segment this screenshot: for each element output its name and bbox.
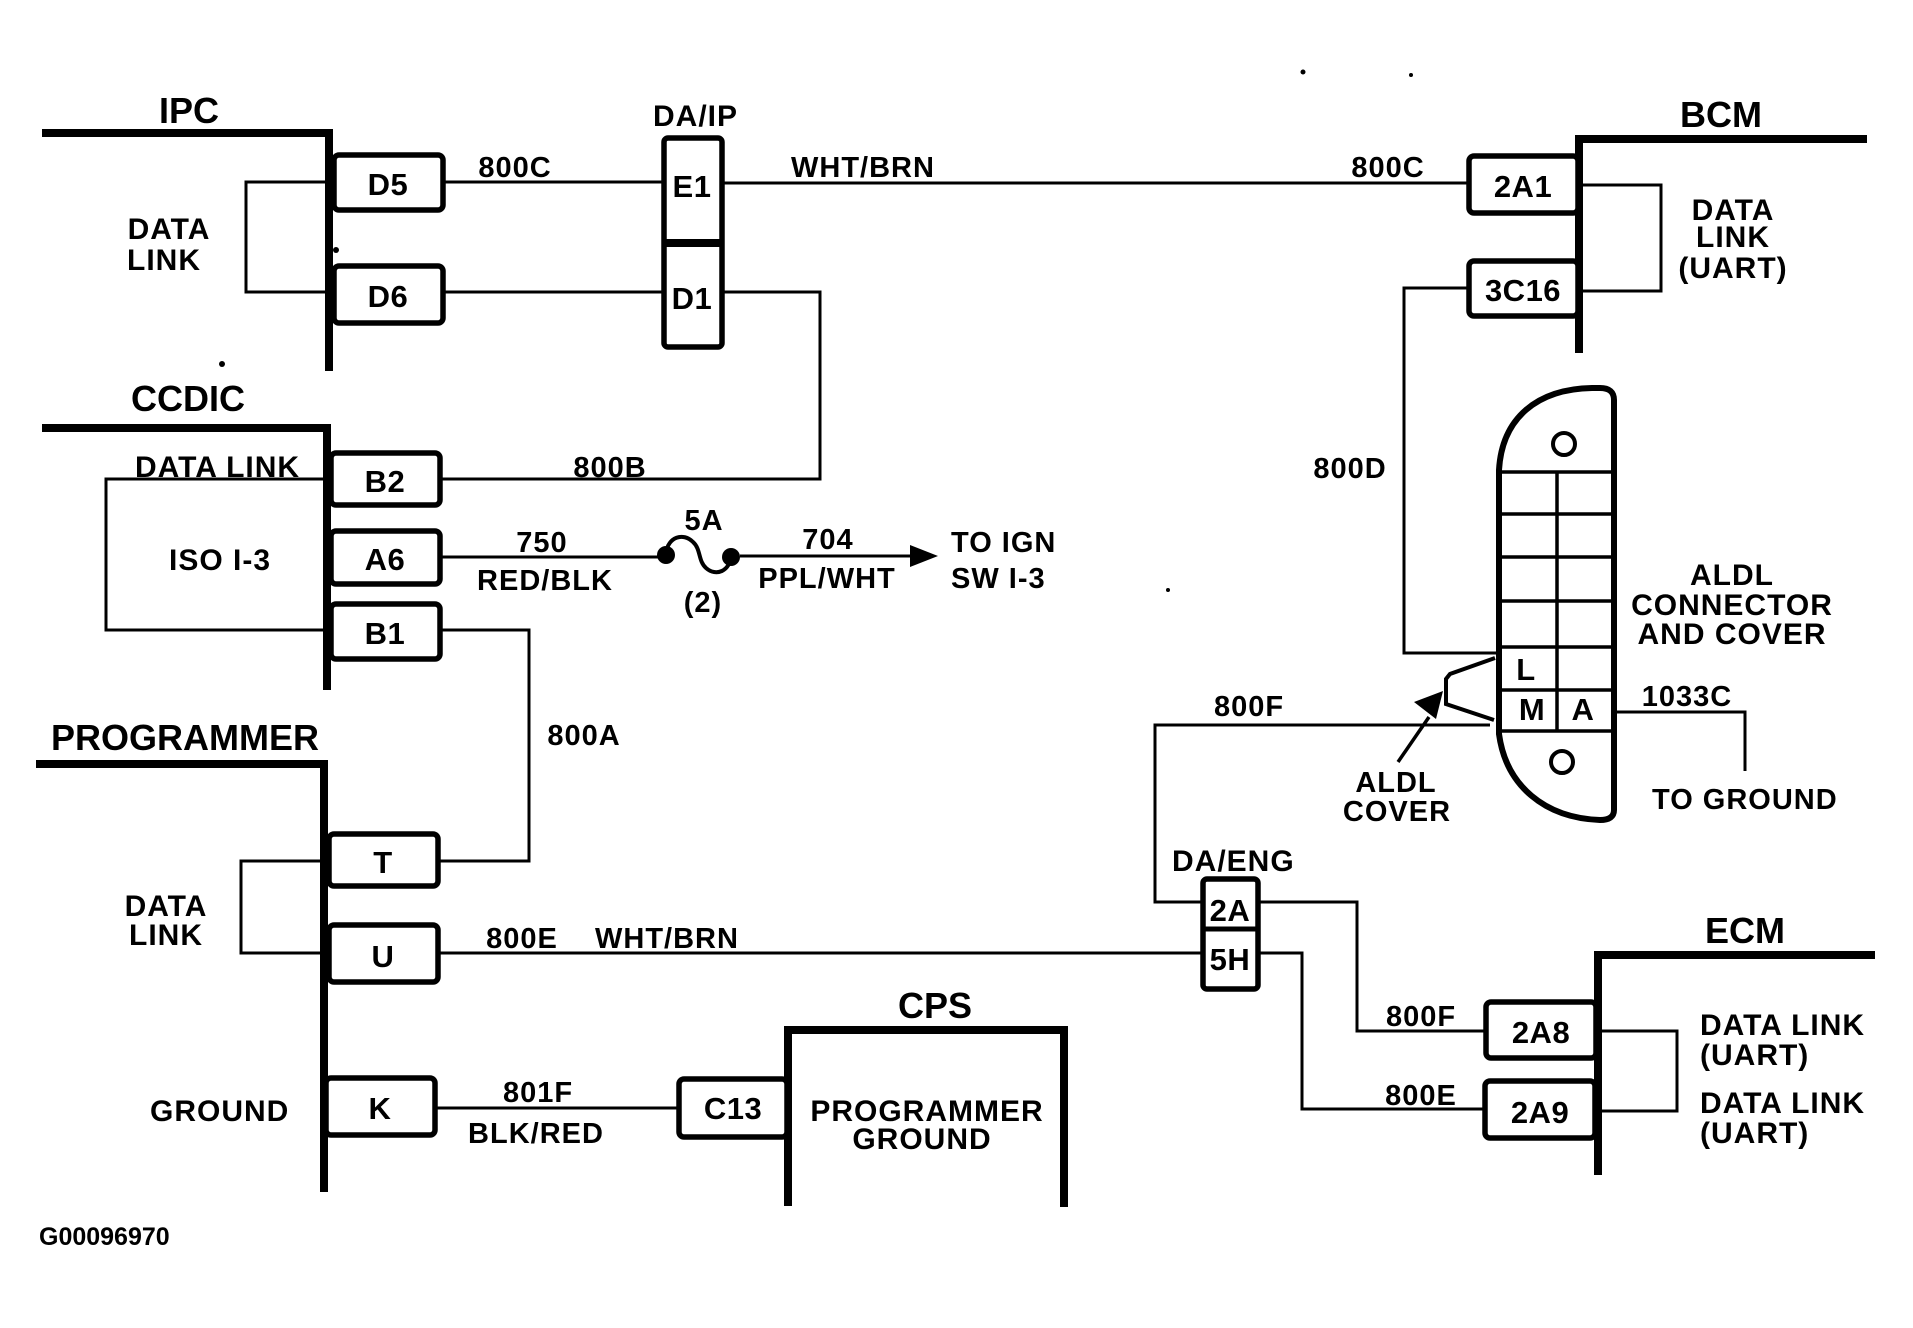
ALDL cover pointer arrow [1398, 691, 1443, 762]
svg-text:L: L [1516, 652, 1535, 687]
svg-text:K: K [369, 1091, 392, 1126]
CCDIC DATA LINK label [135, 451, 300, 484]
label 800A [547, 720, 620, 752]
connector DA/ENG label [1172, 845, 1295, 878]
label 750 [516, 527, 567, 559]
IPC data link internal bracket [246, 182, 329, 292]
ALDL CONNECTOR AND COVER label [1631, 559, 1833, 651]
svg-text:800A: 800A [547, 720, 620, 752]
wire 800D 3C16 to ALDL [1404, 288, 1496, 653]
scan speckles [1301, 70, 1306, 75]
module BCM outline bar [1579, 139, 1867, 353]
connector DA/IP body (pins E1/D1) [664, 138, 722, 347]
svg-text:BLK/RED: BLK/RED [468, 1118, 604, 1150]
svg-text:LINK: LINK [1696, 221, 1770, 254]
CCDIC internal bracket ISO [106, 479, 331, 630]
svg-text:5A: 5A [684, 505, 723, 537]
svg-text:DA/IP: DA/IP [653, 100, 738, 133]
label 800E lower [1385, 1080, 1457, 1112]
pin 2A8 [1486, 1002, 1596, 1058]
wire WHT/BRN E1 to 2A1 [722, 182, 1469, 185]
svg-text:LINK: LINK [129, 919, 203, 952]
svg-text:(2): (2) [684, 587, 722, 619]
svg-text:WHT/BRN: WHT/BRN [595, 923, 739, 955]
svg-text:800E: 800E [1385, 1080, 1457, 1112]
svg-text:PPL/WHT: PPL/WHT [758, 563, 896, 595]
module CPS outline [788, 1030, 1064, 1207]
connector DA/IP label [653, 100, 738, 133]
svg-text:M: M [1519, 692, 1545, 727]
wire 800E WHT/BRN U to 5H [438, 952, 1203, 955]
svg-text:A6: A6 [365, 542, 406, 577]
pin T [329, 834, 438, 886]
svg-text:DATA LINK: DATA LINK [1700, 1009, 1865, 1042]
svg-text:RED/BLK: RED/BLK [477, 565, 613, 597]
ECM DATA LINK (UART) label lower [1700, 1087, 1865, 1150]
svg-text:750: 750 [516, 527, 567, 559]
svg-text:5H: 5H [1210, 942, 1251, 977]
label WHT/BRN [791, 152, 935, 184]
svg-text:ALDL: ALDL [1355, 767, 1436, 799]
wire 704 PPL/WHT fuse to arrow [740, 555, 915, 558]
svg-text:GROUND: GROUND [852, 1123, 991, 1156]
module BCM label [1680, 94, 1762, 135]
svg-text:BCM: BCM [1680, 94, 1762, 135]
IPC DATA LINK label [127, 213, 210, 277]
wire 800A B1 to T [438, 630, 529, 861]
wire 800B D1 to B2 [440, 292, 820, 479]
svg-text:CCDIC: CCDIC [131, 378, 245, 419]
svg-text:G00096970: G00096970 [39, 1223, 170, 1251]
svg-text:DA/ENG: DA/ENG [1172, 845, 1295, 878]
ALDL cover flap [1446, 658, 1495, 720]
wire 1033C A to ground [1614, 712, 1745, 771]
svg-text:ISO I-3: ISO I-3 [169, 544, 271, 577]
svg-text:D6: D6 [368, 279, 409, 314]
svg-text:T: T [373, 845, 392, 880]
svg-text:B2: B2 [365, 464, 406, 499]
svg-text:2A8: 2A8 [1512, 1015, 1570, 1050]
wire 801F BLK/RED K to C13 [435, 1107, 679, 1110]
svg-text:GROUND: GROUND [150, 1095, 289, 1128]
PROGRAMMER GROUND label [150, 1095, 289, 1128]
svg-text:AND COVER: AND COVER [1637, 618, 1826, 651]
svg-text:D5: D5 [368, 167, 409, 202]
wire 800C D5 to E1 [443, 181, 664, 184]
module IPC outline bar [42, 133, 329, 371]
svg-text:CPS: CPS [898, 985, 972, 1026]
svg-text:800E: 800E [486, 923, 558, 955]
wire 800E 5H to 2A9 [1258, 953, 1485, 1109]
CCDIC ISO I-3 label [169, 544, 271, 577]
svg-text:A: A [1572, 692, 1595, 727]
ECM data link bracket [1602, 1031, 1677, 1111]
svg-text:800C: 800C [478, 152, 551, 184]
BCM data link bracket [1583, 185, 1661, 291]
pin 2A1 [1469, 156, 1578, 213]
label 5A [684, 505, 723, 537]
wire 800F 2A to 2A8 [1258, 902, 1486, 1031]
BCM DATA LINK (UART) label [1678, 194, 1787, 285]
pin 2A9 [1485, 1081, 1595, 1138]
module ECM label [1705, 910, 1785, 951]
label 800F lower [1386, 1001, 1456, 1033]
PROGRAMMER data link bracket [241, 861, 329, 953]
label 800C right [1351, 152, 1424, 184]
svg-text:TO IGN: TO IGN [951, 527, 1056, 559]
svg-text:ALDL: ALDL [1690, 559, 1774, 592]
svg-text:LINK: LINK [127, 244, 201, 277]
svg-text:3C16: 3C16 [1485, 273, 1561, 308]
svg-text:TO GROUND: TO GROUND [1652, 784, 1838, 816]
pin B1 [331, 604, 440, 659]
module IPC label [159, 90, 219, 131]
label BLK/RED [468, 1118, 604, 1150]
svg-text:(UART): (UART) [1700, 1039, 1809, 1072]
svg-text:SW I-3: SW I-3 [951, 563, 1046, 595]
ALDL pin L [1516, 652, 1535, 687]
PROGRAMMER DATA LINK label [125, 890, 208, 952]
svg-text:704: 704 [802, 524, 853, 556]
module CPS label [898, 985, 972, 1026]
svg-text:800D: 800D [1313, 453, 1386, 485]
ALDL bottom mounting hole [1551, 751, 1573, 773]
module CCDIC label [131, 378, 245, 419]
svg-text:800F: 800F [1386, 1001, 1456, 1033]
connector DA/ENG body (pins 2A/5H) [1203, 879, 1258, 989]
svg-text:PROGRAMMER: PROGRAMMER [51, 717, 319, 758]
module ECM outline bar [1598, 955, 1875, 1175]
label TO IGN SW I-3 [951, 527, 1056, 595]
svg-text:800F: 800F [1214, 691, 1284, 723]
pin 3C16 [1469, 261, 1578, 316]
ECM DATA LINK (UART) label upper [1700, 1009, 1865, 1072]
svg-text:1033C: 1033C [1642, 681, 1732, 713]
pin C13 [679, 1079, 787, 1137]
svg-text:COVER: COVER [1343, 796, 1451, 828]
label 800D [1313, 453, 1386, 485]
ALDL connector outline [1499, 388, 1614, 820]
wire D6 to D1 [443, 291, 664, 294]
wire 750 RED/BLK A6 to fuse [440, 556, 662, 559]
svg-text:DATA LINK: DATA LINK [1700, 1087, 1865, 1120]
label TO GROUND [1652, 784, 1838, 816]
pin D5 [334, 155, 443, 210]
svg-text:(UART): (UART) [1700, 1117, 1809, 1150]
svg-text:IPC: IPC [159, 90, 219, 131]
label 704 [802, 524, 853, 556]
figure number G00096970 [39, 1223, 170, 1251]
svg-text:U: U [372, 939, 395, 974]
module PROGRAMMER label [51, 717, 319, 758]
ALDL top mounting hole [1553, 433, 1575, 455]
label RED/BLK [477, 565, 613, 597]
svg-text:D1: D1 [672, 281, 713, 316]
pin B2 [331, 453, 440, 505]
svg-text:ECM: ECM [1705, 910, 1785, 951]
label 801F [503, 1077, 573, 1109]
svg-text:B1: B1 [365, 616, 406, 651]
svg-text:800B: 800B [573, 452, 646, 484]
svg-text:800C: 800C [1351, 152, 1424, 184]
svg-text:C13: C13 [704, 1091, 762, 1126]
arrow to IGN SW [910, 545, 938, 567]
svg-text:801F: 801F [503, 1077, 573, 1109]
svg-text:2A9: 2A9 [1511, 1095, 1569, 1130]
svg-text:2A: 2A [1210, 893, 1251, 928]
svg-text:2A1: 2A1 [1494, 169, 1552, 204]
label WHT/BRN [595, 923, 739, 955]
module CCDIC outline bar [42, 428, 327, 690]
label PPL/WHT [758, 563, 896, 595]
label 800F [1214, 691, 1284, 723]
ALDL COVER label [1343, 767, 1451, 828]
pin D6 [334, 266, 443, 323]
CPS PROGRAMMER GROUND label [810, 1095, 1043, 1156]
label 1033C [1642, 681, 1732, 713]
ALDL pin A [1572, 692, 1595, 727]
label 800E [486, 923, 558, 955]
wire 800F ALDL to 2A [1155, 725, 1490, 902]
pin U [329, 925, 438, 982]
label 800B [573, 452, 646, 484]
pin A6 [331, 531, 440, 584]
svg-text:(UART): (UART) [1678, 252, 1787, 285]
label (2) [684, 587, 722, 619]
svg-text:E1: E1 [673, 169, 712, 204]
ALDL pin grid [1499, 472, 1614, 731]
module PROGRAMMER outline bar [36, 764, 324, 1192]
svg-text:DATA: DATA [128, 213, 211, 246]
fuse 5A in-line [657, 537, 740, 572]
label 800C [478, 152, 551, 184]
svg-text:WHT/BRN: WHT/BRN [791, 152, 935, 184]
ALDL pin M [1519, 692, 1545, 727]
pin K [326, 1078, 435, 1135]
